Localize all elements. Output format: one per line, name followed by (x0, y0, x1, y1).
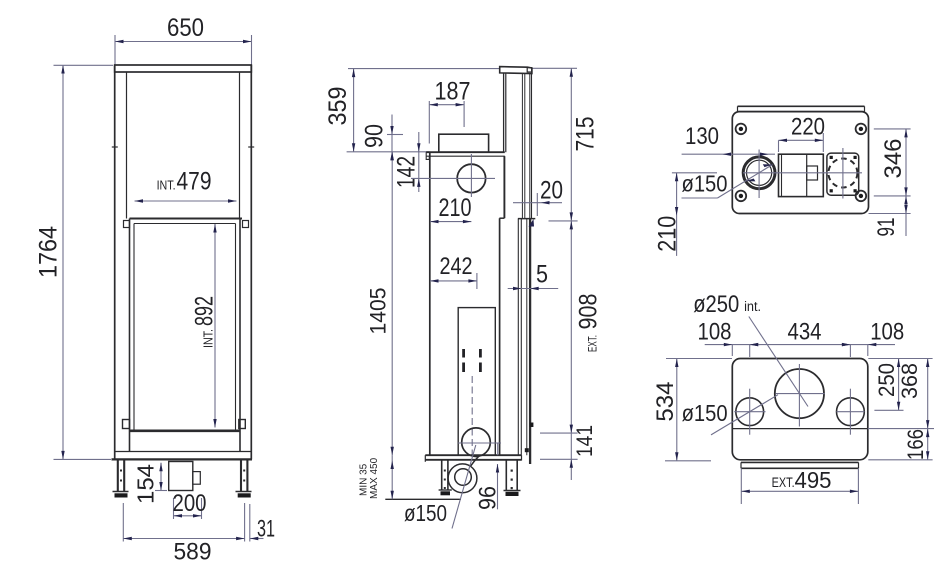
dim 220 extension left (778, 140, 780, 152)
dim 1405 arrow bottom (391, 447, 394, 456)
dim 5 arrow right (530, 287, 539, 290)
bolt hole top right (856, 124, 867, 135)
flue pipe top edge (518, 218, 535, 220)
dim 31 line (250, 538, 264, 540)
top band (738, 105, 865, 107)
dim 589 line (123, 538, 244, 540)
svg-text:INT.892: INT.892 (191, 296, 219, 348)
svg-text:INT.: INT. (157, 177, 176, 192)
top extension line left (348, 68, 500, 70)
left foot (113, 491, 129, 493)
dim 108R arrow right (868, 343, 877, 346)
right side tick (248, 146, 254, 148)
dim 359 line (353, 69, 355, 152)
glass top inner line (134, 223, 236, 225)
dim 242 line (430, 280, 477, 282)
svg-text:EXT.: EXT. (772, 475, 795, 490)
dim 187 arrow right (456, 103, 465, 106)
svg-text:479: 479 (177, 167, 212, 195)
dim 589 arrow left (123, 537, 132, 540)
dim 434 arrow left (750, 343, 759, 346)
flue circle inner (747, 160, 772, 185)
svg-text:368: 368 (897, 363, 922, 399)
junction box (779, 154, 824, 196)
glass inner right line (235, 224, 237, 431)
dim 91 arrow down (904, 205, 907, 214)
svg-text:ø150: ø150 (404, 500, 447, 526)
dim MIN MAX line (391, 455, 393, 499)
dim 892 line (214, 224, 216, 428)
dim 154 arrow bottom (159, 482, 162, 491)
svg-text:534: 534 (652, 382, 679, 422)
left circle vertical centerline (749, 389, 751, 435)
dim 187 arrow left (429, 103, 438, 106)
dim 187 extension left (428, 101, 430, 144)
svg-text:int.: int. (744, 299, 761, 314)
top circle horizontal centerline (411, 177, 495, 179)
dim 220 line (779, 139, 824, 141)
dim 31 arrow (250, 537, 258, 540)
dim EXT495 extension left (740, 468, 742, 504)
dim 715 arrow top (570, 68, 573, 77)
flue pipe arrow marker (529, 219, 535, 227)
flue vertical centerline (758, 150, 760, 199)
fan box circle dashed (828, 159, 857, 188)
body bottom edge (112, 458, 253, 460)
dim 346 arrow bottom (904, 187, 907, 196)
dim 5 line (508, 288, 559, 290)
left circle horizontal centerline (734, 411, 765, 413)
svg-text:200: 200 (173, 490, 207, 517)
svg-text:130: 130 (685, 123, 719, 150)
door left frame line (129, 219, 131, 452)
firebox vents (462, 349, 465, 358)
dim 108R line (842, 344, 895, 346)
chimney left wall outer (503, 73, 505, 152)
left leg (117, 459, 119, 491)
svg-text:5: 5 (536, 261, 548, 289)
dim 154 line (160, 463, 162, 491)
dim 200 line (174, 515, 202, 517)
dim 210 top extension (672, 172, 717, 174)
dim 108L arrow left (724, 343, 733, 346)
dim 650 arrow left (115, 40, 124, 43)
dim 108R extension (867, 345, 869, 356)
dim 250 line (898, 359, 900, 411)
svg-text:346: 346 (880, 139, 907, 179)
dim 200 extension left (173, 498, 175, 519)
dim 534 extension bottom (665, 460, 711, 462)
bottom body outline (732, 359, 868, 460)
dim 650 extension left (114, 35, 116, 65)
dim 368 arrow bottom (926, 420, 929, 429)
dim 90 line (391, 115, 393, 161)
base plate top line (425, 454, 521, 456)
dim 650 line (115, 41, 252, 43)
flue pipe left wall a (517, 219, 519, 456)
dim MIN MAX arrow down (391, 491, 394, 500)
svg-text:210: 210 (654, 216, 682, 252)
bottom circle horizontal centerline (458, 442, 501, 444)
dim 141 arrow up (570, 459, 573, 468)
dim 1764 extension bottom (54, 458, 112, 460)
dim 892 arrow bottom (213, 419, 216, 428)
right leg (240, 459, 242, 491)
right circle (837, 398, 865, 426)
dim 210 line (430, 221, 471, 223)
svg-text:589: 589 (174, 539, 212, 566)
dim 200 arrow left (174, 514, 183, 517)
dim 434 line (750, 344, 851, 346)
dim 166 line (927, 429, 929, 460)
flue pipe cleanout (525, 448, 529, 452)
dim EXT495 arrow left (741, 490, 750, 493)
dim EXT495 extension right (857, 468, 859, 504)
dim 715 line (570, 68, 572, 221)
left side tick (112, 146, 118, 148)
bolt hole bottom left (736, 191, 747, 202)
dim 141 line (570, 433, 572, 480)
dim 154 bottom tick (155, 490, 167, 492)
chimney right wall inner pair (521, 74, 523, 219)
shelf left lip (426, 152, 429, 159)
dim 479 line (135, 200, 237, 202)
dim o250 leader (749, 317, 808, 407)
door hinge tab top left (124, 221, 130, 228)
shelf extension line (347, 151, 430, 153)
dim 90 tick (387, 134, 403, 136)
base plate left cap (424, 455, 426, 462)
front band (741, 461, 859, 463)
shelf bottom line (426, 155, 505, 157)
dim 479 arrow left (135, 199, 144, 202)
big circle vertical centerline (798, 364, 800, 427)
flue pipe damper knob (530, 423, 534, 428)
svg-text:650: 650 (167, 14, 204, 42)
svg-text:ø150: ø150 (682, 171, 728, 197)
dim 359 arrow bottom (352, 143, 355, 152)
glass inner left line (133, 224, 135, 431)
exhaust box (169, 462, 193, 491)
door top edge (130, 218, 243, 220)
base plate bottom line (425, 459, 521, 461)
dim 20 extension (536, 193, 538, 216)
door latch tab top right (243, 221, 249, 228)
dim 130 arrow left (723, 153, 732, 156)
dim 1764 extension top (54, 64, 114, 66)
dim o150 top underline (682, 197, 718, 199)
dim 368 arrow top (926, 359, 929, 368)
dim 210 arrow left (430, 220, 439, 223)
dim 142 arrow down (417, 143, 420, 152)
dim 142 arrow up (417, 178, 420, 187)
svg-text:187: 187 (435, 78, 471, 106)
right column inner line (239, 72, 241, 219)
dim 220 arrow left (779, 139, 788, 142)
dim 91 arrow up (904, 196, 907, 205)
body left edge (429, 152, 431, 455)
dim 90 arrow up (390, 152, 393, 161)
dim 108L extension circle (749, 345, 751, 357)
dim 90 arrow down (390, 126, 393, 135)
chimney left wall inner (505, 73, 507, 152)
svg-text:210: 210 (439, 194, 472, 222)
dim 242 arrow right (468, 279, 477, 282)
dim 434 arrow right (842, 343, 851, 346)
door hinge tab bottom left (123, 420, 130, 429)
svg-text:108: 108 (698, 319, 732, 346)
svg-text:91: 91 (873, 218, 900, 237)
dim 534 arrow top (675, 359, 678, 368)
left column inner line (126, 72, 128, 219)
dim 200 extension right (201, 498, 203, 519)
top extension line right (532, 67, 578, 69)
right circle horizontal centerline (836, 411, 864, 413)
left side outer line (114, 65, 116, 459)
dim 96 arrow up (496, 464, 499, 473)
fan volute tail (471, 456, 479, 466)
dim MIN MAX arrow up (391, 461, 394, 470)
big circle horizontal centerline (775, 393, 824, 395)
dim EXT495 arrow right (850, 490, 859, 493)
dim 187 line (429, 104, 464, 106)
flue pipe right wall inner (526, 219, 528, 456)
dim 650 extension right (251, 35, 253, 65)
dim o150 top leader (718, 165, 773, 199)
left circle o150 (736, 398, 764, 426)
dim 154 arrow top (159, 463, 162, 472)
dim 166 arrow bottom (926, 451, 929, 460)
svg-text:EXT.908: EXT.908 (575, 294, 603, 353)
svg-text:MAX 450: MAX 450 (369, 457, 380, 499)
dim 534 arrow bottom (675, 452, 678, 461)
dim o150 arrow upper rim (763, 164, 773, 167)
dim 892 arrow top (213, 224, 216, 233)
bolt hole top left (736, 124, 747, 135)
dim EXT908 arrow bottom (570, 425, 573, 434)
dim 1405 line (391, 152, 393, 455)
top circle vertical centerline (470, 154, 472, 197)
flue pipe right wall outer (529, 219, 531, 464)
svg-text:495: 495 (795, 467, 832, 493)
right circle vertical centerline (849, 389, 851, 435)
svg-text:1405: 1405 (366, 288, 391, 335)
dim 650 arrow right (243, 40, 252, 43)
dim 479 arrow right (228, 199, 237, 202)
chimney cap corner detail (527, 68, 531, 72)
dim 368 line (927, 359, 929, 429)
fan volute outer (448, 464, 477, 493)
dim 31 extension (249, 504, 251, 542)
dim 250 arrow top (897, 359, 900, 368)
dim 142 line (418, 132, 420, 192)
dim 91 extension (869, 213, 911, 215)
dim 346 line (905, 129, 907, 196)
dim 589 arrow right (236, 537, 245, 540)
svg-text:250: 250 (874, 363, 899, 397)
dim 220 arrow right (815, 139, 824, 142)
dim 210 arrow right (463, 220, 472, 223)
svg-text:242: 242 (440, 253, 473, 280)
svg-text:166: 166 (903, 429, 928, 460)
dim EXT908 arrow top (570, 221, 573, 230)
dim 210 top arrow up (675, 173, 678, 182)
tick at 433 (540, 432, 578, 434)
dim 1764 arrow top (61, 65, 64, 74)
right foot (236, 491, 252, 493)
dim 589 extension left (122, 503, 124, 542)
svg-text:220: 220 (791, 114, 825, 141)
dim 220 extension right (822, 133, 824, 152)
flue pipe left wall b (520, 219, 522, 456)
dim EXT495 line (741, 490, 858, 492)
dim 20 arrow (541, 201, 550, 204)
door right frame line (239, 219, 241, 452)
flue circle outer (743, 157, 775, 189)
mid right leg (505, 460, 507, 491)
fan box vertical centerline (842, 148, 844, 199)
dim 130 line (682, 153, 775, 155)
dim 96 extension (497, 443, 499, 456)
fan volute inner (455, 469, 472, 486)
dim 210 top arrow down (675, 207, 678, 216)
dim 715 arrow bottom (570, 212, 573, 221)
dim 166 arrow top (926, 429, 929, 438)
exhaust box notch (193, 472, 201, 485)
svg-text:434: 434 (788, 319, 822, 346)
body right edge lower (499, 218, 501, 455)
bottom circle outlet (462, 428, 491, 457)
junction box divider (806, 154, 808, 196)
junction tick 715-908 (549, 220, 578, 222)
box on shelf (439, 134, 489, 152)
dim 166 extension (868, 459, 932, 461)
dim 368 extension (868, 428, 934, 430)
dim 96 line (497, 464, 499, 509)
top circle flue outlet (457, 164, 485, 192)
dim 359 arrow top (352, 69, 355, 78)
dim 250 arrow bottom (897, 402, 900, 411)
door latch tab bottom right (239, 420, 246, 429)
svg-text:154: 154 (133, 464, 159, 504)
dim 534 line (676, 359, 678, 461)
base plate right cap (521, 455, 523, 460)
dim 108L extension body (731, 345, 733, 356)
bolt hole bottom right (856, 191, 867, 202)
dim 210 top line (676, 173, 678, 256)
svg-text:20: 20 (540, 177, 563, 205)
shelf top line (426, 151, 505, 153)
dim 534 extension top (666, 358, 732, 360)
chimney mid wall below shelf (503, 156, 505, 218)
svg-text:108: 108 (870, 319, 904, 346)
svg-text:ø150: ø150 (682, 400, 728, 426)
dim 141 tick bottom (540, 458, 578, 460)
chimney cap (500, 67, 532, 74)
dim 346 extension top (874, 128, 911, 130)
dim 108L arrow right (750, 343, 759, 346)
right side outer line (250, 65, 252, 459)
dim 200 arrow right (193, 514, 202, 517)
dim 130 arrow right (760, 153, 769, 156)
dim 187 extension right (463, 101, 465, 127)
top plate (115, 65, 252, 72)
internal line (732, 428, 868, 430)
svg-text:359: 359 (324, 87, 352, 126)
dim 5 arrow left (513, 287, 522, 290)
dim o150 arrow lower rim (746, 179, 756, 182)
svg-text:MIN 35: MIN 35 (359, 463, 370, 496)
mid left foot (439, 489, 452, 491)
svg-text:141: 141 (572, 425, 597, 457)
dim 20 line (513, 202, 562, 204)
dashed centerline (471, 376, 473, 456)
floor line (385, 498, 461, 500)
dim 346 extension bottom (874, 195, 911, 197)
dim o150 mid leader (452, 445, 476, 529)
svg-text:715: 715 (572, 117, 600, 152)
junction box notch (807, 166, 818, 180)
dim 1405 arrow top (391, 152, 394, 161)
dim 1764 line (62, 65, 64, 459)
firebox (458, 308, 495, 456)
svg-text:142: 142 (393, 156, 421, 188)
svg-text:90: 90 (360, 124, 388, 148)
bottom panel line (115, 451, 251, 453)
mid right foot (504, 490, 521, 492)
fan box corner bolts (830, 156, 833, 159)
dim 242 arrow left (430, 279, 439, 282)
dim o150 bottom leader (711, 395, 778, 435)
fan box rounded square (827, 153, 859, 195)
dim 434 extension right (849, 345, 851, 357)
junction box inner left line (781, 154, 783, 196)
mid left leg (441, 460, 443, 490)
chimney right wall outer pair (529, 74, 531, 219)
glass bottom edge (130, 429, 241, 432)
dim 108R arrow left (842, 343, 851, 346)
step edge (499, 217, 504, 219)
dim 346 arrow top (904, 129, 907, 138)
big circle o250 (775, 369, 824, 418)
svg-text:1764: 1764 (35, 226, 63, 278)
dim 1764 arrow bottom (61, 451, 64, 460)
top body outline (732, 112, 868, 214)
dim 250 tick (874, 409, 903, 411)
dim EXT908 line (570, 221, 572, 433)
horizontal centerline (743, 172, 862, 174)
shared extension top right (868, 358, 932, 360)
dim 91 line (905, 196, 907, 236)
dim 589 extension right (244, 503, 246, 542)
svg-text:ø250: ø250 (693, 291, 739, 318)
dim 242 extension right (476, 273, 478, 289)
dim 108L line (705, 344, 760, 346)
